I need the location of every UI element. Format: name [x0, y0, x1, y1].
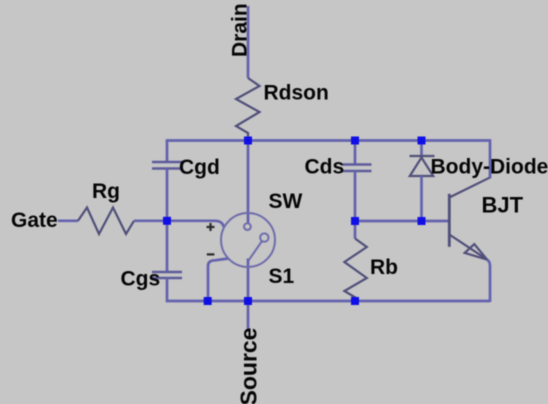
wire bottom rail (source node) — [167, 300, 490, 303]
junction source rail at Rb — [351, 297, 359, 305]
switch lever — [249, 233, 269, 260]
wire top rail (drain node) — [167, 139, 490, 142]
wire Rg to gate node — [134, 219, 167, 222]
switch S1 body circle — [221, 213, 275, 267]
junction base rail at diode — [418, 217, 426, 225]
svg-text:Drain: Drain — [229, 3, 252, 57]
wire Cds from drain rail — [354, 141, 357, 165]
svg-text:Cds: Cds — [305, 156, 345, 179]
junction drain rail at diode — [418, 137, 426, 145]
switch minus marker — [207, 253, 215, 255]
label BJT — [482, 193, 524, 218]
svg-text:Rg: Rg — [92, 180, 120, 203]
svg-text:Body-Diode: Body-Diode — [431, 156, 548, 179]
label Body-Diode — [431, 156, 548, 179]
wire gate node to switch plus lead — [167, 221, 224, 228]
junction base rail at Rb — [351, 217, 359, 225]
resistor Rb — [344, 239, 366, 302]
svg-text:Cgs: Cgs — [121, 268, 161, 291]
junction drain rail at Rdson — [244, 137, 252, 145]
switch plus marker — [207, 223, 215, 231]
wire source lead — [247, 301, 250, 329]
wire right collector riser — [489, 139, 492, 178]
svg-text:Rdson: Rdson — [264, 82, 329, 105]
wire Rb upper lead — [354, 221, 357, 239]
junction source rail at switch minus — [204, 297, 212, 305]
resistor Rdson — [236, 78, 260, 141]
capacitor Cgs — [152, 272, 182, 278]
capacitor Cgd — [152, 162, 182, 169]
label Rdson — [264, 82, 329, 105]
label S1 — [269, 265, 295, 288]
wire Cgd to gate node — [166, 169, 169, 222]
diode D1 body diode — [410, 141, 435, 222]
svg-text:SW: SW — [269, 190, 303, 213]
wire Cds to base rail — [354, 171, 357, 221]
wire base rail — [355, 220, 449, 223]
wire switch bottom pin — [247, 259, 250, 302]
svg-text:Source: Source — [236, 328, 262, 404]
capacitor Cds — [342, 165, 372, 172]
junction source rail at switch bottom — [244, 297, 252, 305]
wire switch top pin — [247, 141, 250, 224]
junction gate node — [163, 217, 171, 225]
svg-text:Rb: Rb — [370, 256, 398, 279]
svg-text:Cgd: Cgd — [179, 156, 220, 179]
svg-text:BJT: BJT — [482, 193, 524, 218]
wire drain lead — [247, 6, 250, 78]
svg-text:Gate: Gate — [11, 209, 58, 232]
label SW — [269, 190, 303, 213]
wire gate lead — [58, 219, 78, 222]
label Cgs — [121, 268, 161, 291]
wire gate node to Cgs — [166, 221, 169, 272]
label Gate — [11, 209, 58, 232]
wire emitter to source rail — [487, 260, 490, 302]
wire left rail upper — [166, 139, 169, 162]
transistor Q1 BJT — [449, 178, 489, 260]
wire switch minus lead — [208, 259, 229, 302]
label Rg — [92, 180, 120, 203]
switch top contact — [244, 223, 251, 230]
label Cds — [305, 156, 345, 179]
wire Cgs to source rail — [166, 278, 169, 302]
label Cgd — [179, 156, 220, 179]
label Rb — [370, 256, 398, 279]
label Source — [236, 328, 262, 404]
label Drain — [229, 3, 252, 57]
svg-text:S1: S1 — [269, 265, 295, 288]
resistor Rg — [78, 208, 134, 235]
junction drain rail at Cds — [351, 137, 359, 145]
